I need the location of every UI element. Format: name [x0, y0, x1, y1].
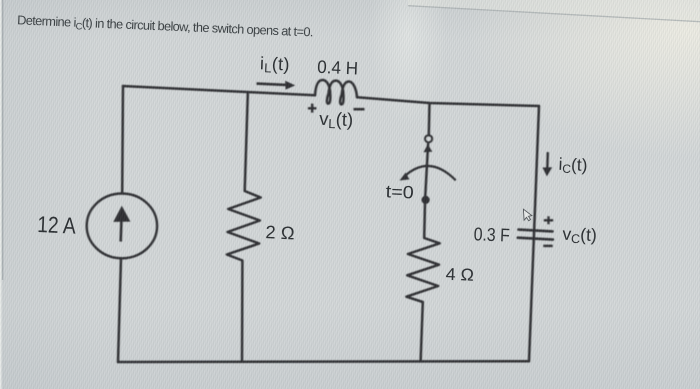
- svg-text:t=0: t=0: [385, 181, 414, 202]
- svg-text:Determine iC(t) in the circuit: Determine iC(t) in the circuit below, th…: [17, 12, 313, 41]
- svg-text:0.4 H: 0.4 H: [317, 57, 359, 79]
- svg-text:2 Ω: 2 Ω: [265, 222, 295, 243]
- svg-text:vC(t): vC(t): [562, 224, 597, 247]
- svg-text:4 Ω: 4 Ω: [445, 264, 474, 285]
- svg-text:0.3 F: 0.3 F: [473, 223, 510, 245]
- svg-text:vL(t): vL(t): [319, 108, 354, 132]
- svg-text:12 A: 12 A: [37, 211, 77, 239]
- svg-text:iL(t): iL(t): [260, 53, 291, 76]
- svg-text:iC(t): iC(t): [558, 154, 588, 177]
